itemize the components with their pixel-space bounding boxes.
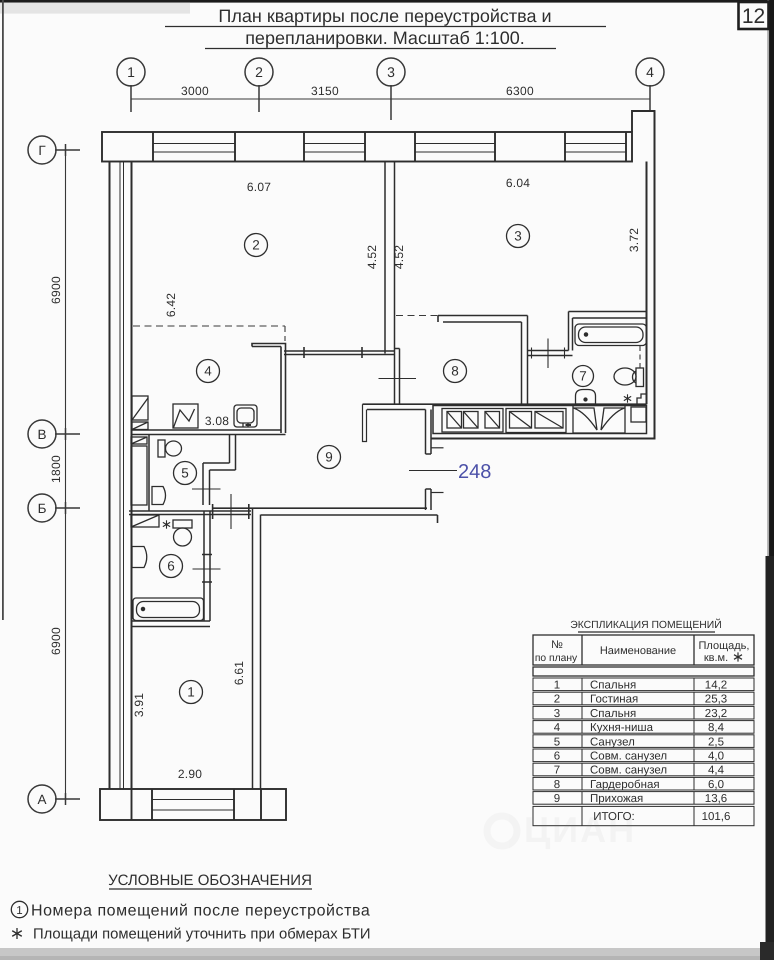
svg-text:1800: 1800 xyxy=(49,455,63,483)
svg-text:2,5: 2,5 xyxy=(708,736,724,748)
svg-text:№: № xyxy=(551,639,563,651)
svg-text:3: 3 xyxy=(554,708,560,720)
table header box xyxy=(533,635,754,665)
table row 6 xyxy=(533,749,754,763)
room 6 bottom wall xyxy=(132,621,211,627)
svg-text:2: 2 xyxy=(554,694,560,706)
svg-text:Совм. санузел: Совм. санузел xyxy=(590,751,667,763)
apartment number 248 xyxy=(458,461,491,483)
table row 3 xyxy=(533,706,754,720)
kitchen stove xyxy=(173,404,198,428)
room circle 4 xyxy=(197,360,220,383)
svg-text:3150: 3150 xyxy=(311,84,339,98)
svg-text:Площадь,: Площадь, xyxy=(699,640,750,652)
svg-text:4: 4 xyxy=(646,64,654,80)
top dimension line xyxy=(131,98,650,100)
watermark cian xyxy=(487,809,636,850)
closet doors group 3 xyxy=(573,406,625,434)
right exterior wall xyxy=(647,111,655,439)
room circle 5 xyxy=(174,462,197,485)
room 3 bottom wall xyxy=(569,312,647,319)
svg-text:4.52: 4.52 xyxy=(392,245,406,269)
window bottom xyxy=(152,800,234,811)
svg-text:2: 2 xyxy=(255,64,263,80)
svg-text:6.07: 6.07 xyxy=(247,180,271,194)
legend item 2 xyxy=(12,928,22,939)
svg-text:по плану: по плану xyxy=(535,653,578,664)
kitchen niche side wall xyxy=(252,344,286,434)
svg-text:Прихожая: Прихожая xyxy=(590,793,643,805)
room 5 left wall xyxy=(148,435,150,512)
axis bubble А xyxy=(28,785,80,813)
right section bottom wall xyxy=(431,438,656,440)
svg-text:А: А xyxy=(37,792,46,807)
scan edge bottom gray band xyxy=(0,942,774,960)
top exterior wall band xyxy=(102,132,632,162)
svg-text:23,2: 23,2 xyxy=(705,708,727,720)
asterisk room 6 xyxy=(163,520,170,528)
svg-text:4: 4 xyxy=(204,364,212,379)
room circle 1 xyxy=(180,681,203,704)
scan edge top bar xyxy=(0,0,774,14)
svg-text:3: 3 xyxy=(387,64,395,80)
axis bubble 2 xyxy=(245,58,273,112)
closet shelves group 1 xyxy=(442,409,503,433)
entrance wall of room 9 xyxy=(426,410,432,511)
svg-text:4: 4 xyxy=(554,722,561,734)
window 1 top xyxy=(153,144,235,153)
bath niche bottom wall xyxy=(528,351,573,356)
top dimension labels xyxy=(181,84,534,98)
vent shaft rects left wall xyxy=(131,396,159,527)
svg-text:Санузел: Санузел xyxy=(590,736,635,748)
vent box right xyxy=(631,407,646,422)
svg-text:8,4: 8,4 xyxy=(708,722,725,734)
table row 1 xyxy=(533,678,754,692)
left dimension line xyxy=(65,150,67,799)
asterisk room 7 xyxy=(624,394,631,402)
svg-text:6,0: 6,0 xyxy=(708,779,724,791)
svg-text:Наименование: Наименование xyxy=(600,645,676,657)
svg-text:5: 5 xyxy=(181,466,189,481)
svg-text:3.91: 3.91 xyxy=(132,693,146,717)
room1 right wall xyxy=(253,508,261,789)
wall between rooms 2 and 3 xyxy=(385,162,395,354)
svg-text:248: 248 xyxy=(458,461,491,483)
svg-text:2.90: 2.90 xyxy=(178,767,202,781)
bathtub room 6 xyxy=(133,598,204,621)
svg-text:14,2: 14,2 xyxy=(705,680,727,692)
svg-text:6900: 6900 xyxy=(49,276,63,304)
top right step block xyxy=(632,111,655,132)
svg-text:6: 6 xyxy=(167,559,175,574)
entrance outside jamb marks xyxy=(431,447,444,449)
room circle 7 xyxy=(573,366,594,387)
svg-text:3000: 3000 xyxy=(181,84,209,98)
svg-text:8: 8 xyxy=(451,364,459,379)
axis bubble Б xyxy=(28,494,80,522)
svg-text:1: 1 xyxy=(127,64,135,80)
room circle 9 xyxy=(318,446,341,469)
table row 4 xyxy=(533,721,754,735)
table row 2 xyxy=(533,692,754,706)
grid axis bubbles top xyxy=(117,58,664,120)
svg-text:1: 1 xyxy=(187,685,195,700)
svg-text:6.04: 6.04 xyxy=(506,176,530,190)
niche wall jamb ticks xyxy=(531,348,533,359)
room 5 wall jog xyxy=(203,463,236,470)
room circle 6 xyxy=(160,555,183,578)
svg-text:9: 9 xyxy=(325,450,333,465)
rooms 5-6 divider wall xyxy=(129,511,251,515)
svg-text:ЭКСПЛИКАЦИЯ ПОМЕЩЕНИЙ: ЭКСПЛИКАЦИЯ ПОМЕЩЕНИЙ xyxy=(570,618,721,631)
sheet number box 12 xyxy=(739,2,769,29)
sink room 6 xyxy=(132,547,147,568)
table row 9 xyxy=(533,792,754,806)
closet row outline xyxy=(433,406,647,434)
axis bubble В xyxy=(28,420,80,448)
table row 7 xyxy=(533,763,754,777)
svg-text:3.72: 3.72 xyxy=(627,228,641,252)
svg-text:9: 9 xyxy=(554,793,560,805)
svg-text:6.42: 6.42 xyxy=(164,293,178,317)
title line 2 xyxy=(205,28,556,49)
svg-text:4,0: 4,0 xyxy=(708,751,724,763)
svg-text:6.61: 6.61 xyxy=(232,661,246,685)
room 7 door swing line xyxy=(547,339,549,369)
room 6 door swing line xyxy=(193,568,221,570)
svg-text:6900: 6900 xyxy=(49,627,63,655)
bottom exterior wall band xyxy=(100,789,286,820)
svg-text:3: 3 xyxy=(514,229,522,244)
svg-text:Совм. санузел: Совм. санузел xyxy=(590,765,667,777)
svg-text:4.52: 4.52 xyxy=(365,245,379,269)
window 2 top xyxy=(304,144,365,153)
svg-text:4,4: 4,4 xyxy=(708,765,725,777)
left dimension labels xyxy=(49,276,63,655)
svg-text:Спальня: Спальня xyxy=(590,680,636,692)
axis letters xyxy=(37,143,46,807)
svg-text:13,6: 13,6 xyxy=(705,793,727,805)
room 6 right wall xyxy=(202,511,212,621)
svg-text:25,3: 25,3 xyxy=(705,694,727,706)
svg-text:Гостиная: Гостиная xyxy=(590,694,638,706)
svg-text:1: 1 xyxy=(16,905,22,917)
kitchen niche back wall xyxy=(284,347,395,358)
room 8 top wall xyxy=(438,316,528,323)
table empty band xyxy=(533,667,754,676)
svg-text:Б: Б xyxy=(38,501,47,516)
sink room 7 xyxy=(576,390,596,405)
room circle 8 xyxy=(444,360,467,383)
svg-text:5: 5 xyxy=(554,736,560,748)
room 5 right wall lower xyxy=(203,463,210,505)
svg-text:УСЛОВНЫЕ ОБОЗНАЧЕНИЯ: УСЛОВНЫЕ ОБОЗНАЧЕНИЯ xyxy=(108,872,312,889)
scan edge right bar xyxy=(766,0,774,960)
svg-text:8: 8 xyxy=(554,779,560,791)
legend item 1 xyxy=(11,901,27,917)
svg-text:6300: 6300 xyxy=(506,84,534,98)
room 5 right wall upper xyxy=(230,435,236,471)
svg-text:План квартиры после переустрой: План квартиры после переустройства и xyxy=(218,6,551,26)
svg-text:2: 2 xyxy=(252,238,260,253)
svg-text:Кухня-ниша: Кухня-ниша xyxy=(590,722,654,734)
svg-text:Г: Г xyxy=(38,143,46,158)
axis bubble 1 xyxy=(117,58,145,112)
title line 1 xyxy=(165,6,606,27)
kitchen sink xyxy=(234,405,257,427)
dashed line room 7 xyxy=(639,346,641,368)
table row 8 xyxy=(533,777,754,791)
room 1 door swing line xyxy=(230,494,232,529)
room 9 bottom wall xyxy=(213,504,438,523)
dashed opening room 3 xyxy=(396,315,438,317)
svg-text:12: 12 xyxy=(742,5,765,28)
bath niche side wall xyxy=(569,312,573,351)
axis bubble 4 xyxy=(636,58,664,112)
room 8 right wall xyxy=(522,316,528,405)
entrance door leader line xyxy=(409,470,457,472)
svg-text:6: 6 xyxy=(554,751,560,763)
window 3 top xyxy=(415,144,495,153)
svg-text:В: В xyxy=(37,427,46,442)
grid axis bubbles left xyxy=(28,136,80,813)
table rows xyxy=(533,678,754,826)
axis bubble Г xyxy=(28,136,80,164)
bathtub room 7 xyxy=(575,324,647,346)
room circle 3 xyxy=(507,225,530,248)
svg-text:3.08: 3.08 xyxy=(205,414,229,428)
toilet room 6 xyxy=(173,520,192,546)
room 5 door swing line xyxy=(192,488,221,490)
closet shelves group 2 xyxy=(506,409,566,433)
vent bracket room 7 xyxy=(637,394,647,404)
svg-text:Площади помещений уточнить при: Площади помещений уточнить при обмерах Б… xyxy=(33,927,371,943)
svg-text:кв.м.: кв.м. xyxy=(704,652,728,664)
sink room 5 xyxy=(152,487,166,505)
window 4 top xyxy=(565,144,626,153)
room 8 left wall xyxy=(395,349,400,405)
room circle 2 xyxy=(245,234,268,257)
svg-text:1: 1 xyxy=(554,680,560,692)
dashed opening room 2 xyxy=(133,325,285,327)
table row 5 xyxy=(533,735,754,749)
axis numbers xyxy=(127,64,654,80)
svg-text:7: 7 xyxy=(554,765,560,777)
table total row xyxy=(533,806,754,825)
svg-text:7: 7 xyxy=(579,369,587,384)
hall nook wall xyxy=(363,404,647,409)
scan edge left line xyxy=(2,0,4,620)
svg-text:Гардеробная: Гардеробная xyxy=(590,779,660,791)
svg-text:Спальня: Спальня xyxy=(590,708,636,720)
toilet room 5 xyxy=(158,440,182,457)
svg-text:перепланировки. Масштаб 1:100.: перепланировки. Масштаб 1:100. xyxy=(245,28,525,48)
axis bubble 3 xyxy=(377,58,405,120)
kitchen counter wall xyxy=(132,430,286,435)
toilet room 7 xyxy=(614,368,644,387)
svg-text:ЦИАН: ЦИАН xyxy=(524,809,636,850)
hall stub wall xyxy=(363,404,367,441)
svg-text:101,6: 101,6 xyxy=(702,811,731,823)
left exterior wall xyxy=(110,162,132,790)
room 8 door swing line xyxy=(379,378,417,380)
svg-text:Номера помещений после переуст: Номера помещений после переустройства xyxy=(31,903,370,920)
